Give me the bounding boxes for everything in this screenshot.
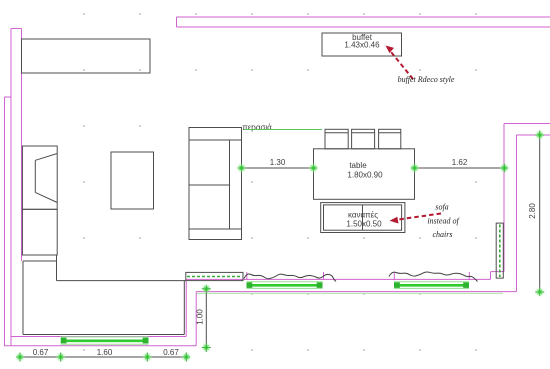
window mid (247, 272, 324, 288)
svg-text:0.67: 0.67 (163, 348, 179, 357)
grid dots (83, 13, 477, 351)
note sofa arrow (390, 214, 442, 224)
svg-text:1.80x0.90: 1.80x0.90 (347, 171, 383, 180)
wall top (magenta band) (177, 17, 550, 27)
dining table (314, 149, 415, 200)
note buffet arrow (386, 46, 414, 80)
dim 1.00 (196, 283, 212, 353)
dim bay 0.67 / 1.60 / 0.67 (15, 348, 192, 363)
wall bay bottom (magenta band) (5, 337, 197, 346)
svg-text:sofa: sofa (435, 203, 448, 212)
svg-text:1.60: 1.60 (97, 348, 113, 357)
svg-text:chairs: chairs (433, 230, 453, 239)
svg-text:1.00: 1.00 (196, 309, 205, 325)
dim 2.80 (528, 130, 545, 298)
dim 1.62 (409, 158, 510, 174)
armchair (22, 146, 57, 209)
cabinet left (22, 209, 57, 255)
perasia green line (244, 129, 322, 131)
room inner face lines (gray) (23, 255, 186, 335)
svg-text:table: table (349, 161, 367, 170)
svg-text:0.67: 0.67 (33, 348, 49, 357)
radiator right (496, 223, 503, 278)
coffee table (111, 152, 154, 209)
svg-text:instead of: instead of (427, 217, 460, 226)
chair 3 (379, 129, 401, 149)
svg-text:1.43x0.46: 1.43x0.46 (344, 41, 380, 50)
svg-text:2.80: 2.80 (528, 203, 537, 219)
svg-text:1.50x0.50: 1.50x0.50 (346, 220, 382, 229)
dim 1.30 (236, 158, 319, 174)
wall bay right (magenta band) (186, 281, 196, 346)
svg-text:καναπές: καναπές (348, 211, 378, 220)
dim extension ticks (20, 131, 544, 362)
radiator bottom (186, 272, 243, 280)
buffet box (322, 33, 402, 56)
chair 1 (325, 129, 348, 149)
window bay (61, 337, 149, 344)
wall left (magenta band) (5, 29, 22, 347)
chair 2 (352, 129, 375, 149)
counter top-left (22, 39, 151, 73)
svg-text:1.30: 1.30 (270, 158, 286, 167)
wall bottom main (magenta band) (186, 272, 516, 292)
svg-text:περασιά: περασιά (242, 123, 272, 132)
green baseline under bottom wall (197, 292, 503, 294)
sofa (189, 128, 242, 240)
wall right (magenta band) (504, 124, 550, 292)
curtain wave right (389, 272, 478, 282)
svg-text:buffet Rdeco style: buffet Rdeco style (398, 75, 455, 84)
svg-text:1.62: 1.62 (452, 158, 468, 167)
window right (394, 272, 469, 288)
bench kanapes (321, 203, 405, 233)
curtain wave left (244, 274, 336, 282)
